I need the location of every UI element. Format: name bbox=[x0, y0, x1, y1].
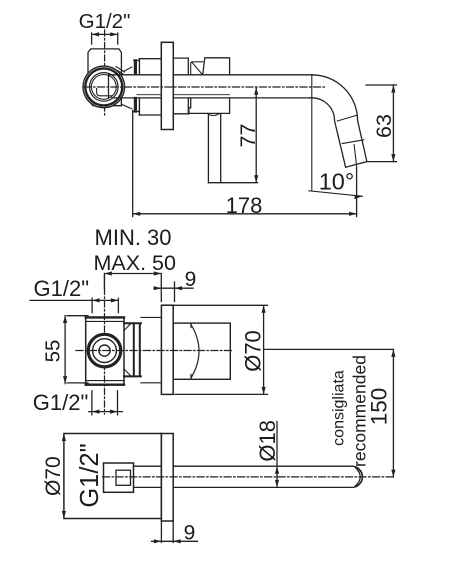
cap wedge piece bbox=[191, 62, 203, 75]
svg-text:MIN. 30: MIN. 30 bbox=[95, 225, 172, 250]
svg-text:150: 150 bbox=[366, 388, 391, 426]
svg-text:77: 77 bbox=[236, 124, 260, 148]
spout curve inner bbox=[310, 98, 346, 167]
dim 63 extension lines bbox=[366, 85, 397, 162]
valve boss inner circle bbox=[90, 73, 119, 102]
spout curve outer bbox=[312, 75, 367, 162]
MIN 30 text bbox=[95, 225, 172, 250]
dim 77 text bbox=[236, 124, 260, 148]
svg-text:consigliata: consigliata bbox=[331, 370, 348, 446]
dim 55 bbox=[65, 316, 88, 384]
svg-text:Ø70: Ø70 bbox=[240, 330, 265, 372]
tube rounded end bbox=[352, 466, 363, 487]
fitting inner square bbox=[116, 470, 131, 485]
svg-text:63: 63 bbox=[372, 114, 396, 138]
svg-text:178: 178 bbox=[226, 193, 263, 218]
svg-text:G1/2": G1/2" bbox=[33, 390, 89, 415]
dim 63 text bbox=[372, 114, 396, 138]
dim O18 bbox=[276, 422, 278, 488]
10 degree text bbox=[319, 169, 355, 195]
150 reference line bbox=[264, 348, 394, 350]
middle circle bbox=[93, 339, 117, 363]
10 degree reference vertical bbox=[311, 75, 313, 191]
spout tube bottom line bbox=[112, 97, 310, 99]
valve centre line (vertical) bbox=[104, 30, 106, 116]
10 degree slant line bbox=[309, 191, 363, 197]
dim 9 (bottom) bbox=[152, 521, 198, 543]
body section right of plate bbox=[173, 58, 189, 114]
centre line horizontal (middle) bbox=[76, 350, 233, 352]
tube dashed centreline bbox=[84, 86, 326, 88]
handle socket bump bbox=[207, 113, 219, 115]
cylinder dome arc bbox=[191, 325, 199, 379]
knurled ring bbox=[88, 334, 121, 367]
G1/2 dimension line bbox=[92, 33, 118, 44]
dim 9 (top) bbox=[154, 282, 193, 302]
spout tip face bbox=[346, 162, 367, 168]
consigliata text bbox=[331, 370, 348, 446]
bottom G1/2 dimension bbox=[89, 391, 123, 415]
secondary barrel line bbox=[137, 94, 230, 96]
dim 178 line bbox=[133, 213, 357, 215]
bottom cap piece with jog bbox=[189, 98, 230, 114]
inner circle bbox=[99, 345, 110, 356]
valve square body bbox=[86, 317, 124, 385]
svg-text:Ø18: Ø18 bbox=[255, 420, 280, 462]
svg-text:G1/2": G1/2" bbox=[34, 276, 90, 301]
svg-text:9: 9 bbox=[185, 268, 197, 291]
valve boss outer circle bbox=[83, 66, 125, 108]
spout tube (front) bbox=[134, 466, 353, 487]
dim 77 line bbox=[208, 87, 257, 183]
wall recess lines bbox=[141, 317, 161, 382]
spout flange square / O70 dim bbox=[64, 434, 161, 519]
valve body bbox=[88, 49, 121, 106]
cartridge corner detail bbox=[97, 89, 112, 96]
svg-text:9: 9 bbox=[184, 522, 196, 545]
barrel left edge bbox=[108, 75, 110, 98]
dim 150 bbox=[392, 349, 394, 477]
G1/2" rotated label bbox=[76, 443, 104, 507]
recommended text bbox=[350, 355, 370, 467]
escutcheon cylinder bbox=[173, 323, 230, 379]
dim 178 text bbox=[226, 193, 263, 218]
svg-text:MAX. 50: MAX. 50 bbox=[94, 251, 176, 275]
svg-text:Ø70: Ø70 bbox=[42, 456, 65, 496]
svg-text:55: 55 bbox=[41, 340, 64, 363]
wall plate (middle) bbox=[161, 305, 173, 394]
G1/2" label (middle bottom) bbox=[33, 390, 89, 415]
svg-text:G1/2": G1/2" bbox=[76, 443, 104, 507]
fitting outer square bbox=[104, 463, 134, 492]
G1/2" label (top) bbox=[79, 10, 131, 33]
neck diagonals bbox=[114, 67, 132, 109]
valve boss ring bbox=[85, 68, 122, 105]
dim 178 extension lines bbox=[133, 111, 357, 217]
MAX 50 text bbox=[94, 251, 176, 275]
body section left of plate bbox=[139, 59, 161, 115]
min/max dimension bbox=[104, 274, 161, 302]
collar bbox=[134, 61, 137, 111]
leader line bbox=[30, 298, 118, 312]
spout joint lines bbox=[337, 115, 363, 167]
valve centre line (middle) bbox=[104, 276, 106, 414]
tube centreline bbox=[103, 476, 396, 478]
wall plate (edge view, top drawing) bbox=[161, 42, 173, 129]
clamp bracket bbox=[124, 323, 141, 376]
top cap piece bbox=[203, 58, 230, 75]
spout tube top line bbox=[109, 74, 312, 76]
G1/2" label (middle top) bbox=[34, 276, 90, 301]
svg-text:recommended: recommended bbox=[350, 355, 370, 467]
handle lever bbox=[208, 115, 220, 183]
wall plate (bottom) bbox=[161, 434, 173, 522]
dim 63 line bbox=[392, 85, 394, 162]
svg-text:10°: 10° bbox=[319, 169, 355, 195]
G1/2 dim arrows bbox=[92, 32, 118, 36]
dim O70 (middle) bbox=[162, 305, 268, 394]
